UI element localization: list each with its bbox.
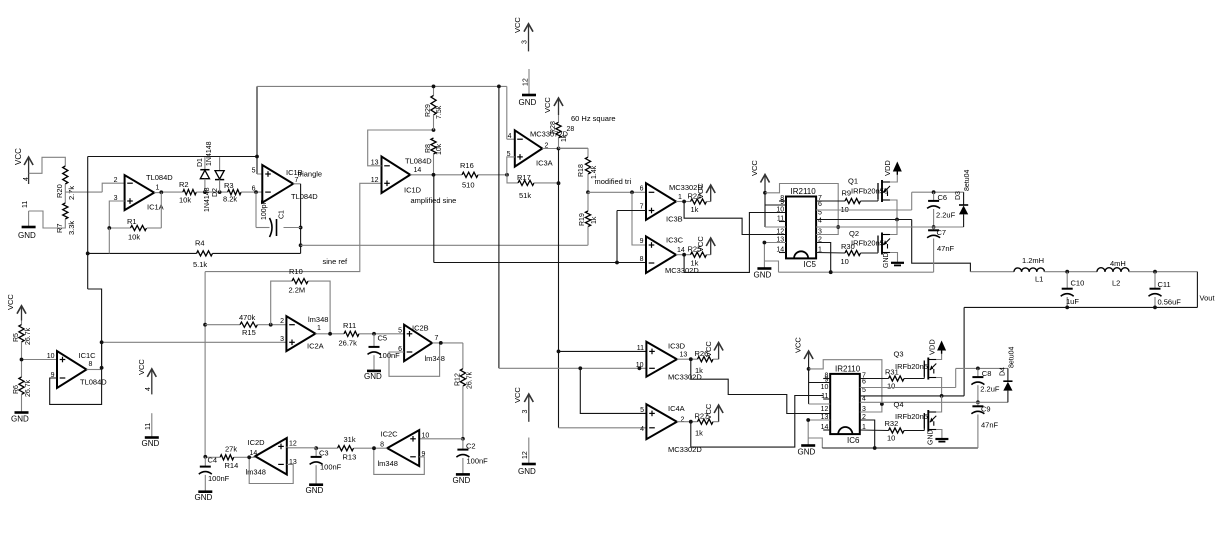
capacitor C8 2.2uF — [971, 368, 999, 402]
svg-text:2.7k: 2.7k — [67, 186, 76, 200]
IC6 pin11 stub — [823, 398, 830, 400]
capacitor C1 100pF — [261, 200, 286, 237]
svg-text:R8: R8 — [425, 144, 432, 153]
svg-text:VCC: VCC — [794, 337, 803, 353]
power flag VCC divider — [6, 294, 26, 321]
svg-text:IRFb20n5: IRFb20n5 — [895, 412, 928, 421]
svg-text:510: 510 — [462, 181, 475, 190]
capacitor C3 100nF — [310, 448, 342, 484]
svg-text:IRFb20n5: IRFb20n5 — [851, 239, 884, 248]
wire square to IC3D — [559, 350, 647, 352]
svg-text:2: 2 — [280, 318, 284, 325]
wire IC2D out — [234, 456, 256, 458]
svg-text:VCC: VCC — [543, 97, 552, 113]
resistor R16 — [460, 161, 478, 190]
node C11 top — [1153, 270, 1157, 274]
svg-text:11: 11 — [145, 423, 152, 430]
svg-text:IC3C: IC3C — [666, 236, 684, 245]
wire vgnd to IC3A — [507, 86, 515, 139]
resistor R19 1k — [579, 192, 598, 245]
svg-text:R11: R11 — [343, 321, 356, 330]
svg-text:R2: R2 — [179, 180, 189, 189]
svg-text:MC3302D: MC3302D — [668, 445, 702, 454]
svg-text:7: 7 — [640, 204, 644, 211]
wire gnd2 jog to rail — [808, 438, 822, 448]
svg-text:L2: L2 — [1112, 279, 1120, 288]
node C5 top — [372, 332, 376, 336]
svg-text:3: 3 — [280, 336, 284, 343]
op-amp IC1B — [252, 165, 323, 203]
svg-text:IR2110: IR2110 — [835, 365, 861, 374]
power flag VCC bottom (pin 3) — [513, 387, 533, 422]
wire pin2b to rail — [860, 420, 875, 448]
node rail 499 — [497, 85, 501, 89]
node D2 bottom — [218, 190, 222, 194]
wire vgnd top — [88, 156, 257, 158]
wire VB2 line — [956, 367, 1008, 369]
svg-text:1N4148: 1N4148 — [204, 187, 211, 212]
ground IC5 GND — [754, 269, 772, 280]
wire R15 to IC2A — [257, 324, 286, 326]
node phase q3 — [940, 394, 944, 398]
ground R6 GND — [11, 394, 29, 423]
wire VCC to pin3 — [765, 184, 838, 235]
resistor R14 27k — [220, 445, 238, 471]
wire IC4A to LIN2 — [691, 396, 823, 448]
node IC3B out — [682, 200, 686, 204]
wire Q2 drain — [890, 220, 897, 235]
svg-text:GND: GND — [519, 98, 537, 107]
resistor R1 — [127, 217, 147, 242]
svg-text:12: 12 — [821, 406, 829, 413]
node div2 — [20, 358, 24, 362]
diode D1 1N4148 — [197, 141, 213, 192]
node R17 out — [557, 181, 561, 185]
svg-text:R29: R29 — [425, 104, 432, 117]
svg-text:IC5: IC5 — [804, 260, 817, 269]
wire IC1A output — [154, 191, 183, 194]
ground C4 — [195, 492, 213, 502]
svg-text:8etu04: 8etu04 — [964, 169, 971, 191]
capacitor C7 47nF — [927, 227, 954, 272]
svg-text:R17: R17 — [517, 173, 531, 182]
svg-text:VCC: VCC — [704, 341, 713, 357]
svg-text:60 Hz square: 60 Hz square — [571, 114, 616, 123]
resistor R9 — [841, 189, 861, 215]
svg-text:12: 12 — [523, 78, 530, 86]
wire phase row — [970, 271, 1014, 273]
wire IC3B out to LIN — [684, 202, 786, 235]
wire IC2B feedback — [389, 343, 440, 376]
wire pin11 gray — [765, 226, 786, 228]
wire pin6b VB2 — [860, 368, 956, 387]
svg-text:VCC: VCC — [696, 183, 705, 199]
wire square long vertical — [558, 149, 560, 428]
node IC2A out — [328, 332, 332, 336]
power flag VCC top (pin 3) — [513, 17, 533, 52]
svg-text:C11: C11 — [1158, 280, 1171, 289]
node sine R15 — [203, 323, 207, 327]
capacitor C10 1uF — [1061, 272, 1085, 308]
svg-text:VCC: VCC — [513, 387, 522, 403]
svg-text:10: 10 — [887, 434, 895, 443]
svg-text:R18: R18 — [578, 164, 585, 177]
svg-text:C8: C8 — [982, 369, 992, 378]
wire IC1D out — [410, 174, 462, 176]
wire R4 to IC1B out — [213, 252, 301, 254]
svg-text:R1: R1 — [127, 217, 137, 226]
svg-text:10: 10 — [841, 257, 849, 266]
svg-text:D2: D2 — [212, 188, 219, 197]
resistor R11 — [339, 321, 360, 348]
node diode rail — [255, 155, 259, 159]
node R8 top — [432, 128, 436, 132]
svg-text:6: 6 — [252, 186, 256, 193]
node C8 bottom — [976, 400, 980, 404]
node C3 top — [314, 446, 318, 450]
wire VCC to pin9 — [765, 193, 786, 227]
wire R10 loop — [271, 281, 330, 334]
wire Q4 drain — [936, 396, 941, 412]
node IC1D out — [432, 173, 436, 177]
wire ground rail lower — [822, 447, 978, 449]
svg-text:1: 1 — [156, 185, 160, 192]
resistor R7 — [55, 203, 76, 235]
svg-text:VDD: VDD — [883, 160, 892, 176]
node tri out — [299, 243, 303, 247]
wire L2 to C11 — [1129, 271, 1197, 273]
wire IC1D feedback — [368, 130, 434, 166]
svg-text:GND: GND — [306, 486, 324, 495]
svg-text:26.7k: 26.7k — [25, 379, 32, 397]
resistor R27 pullup — [695, 403, 724, 437]
node R15 out — [269, 323, 273, 327]
node C10 top — [1065, 270, 1069, 274]
svg-text:Q4: Q4 — [894, 400, 904, 409]
capacitor C2 100nF — [456, 439, 488, 474]
wire IC3A out — [542, 148, 588, 150]
wire feedback R1 — [109, 192, 161, 228]
wire vgnd vertical — [88, 157, 102, 368]
svg-text:1k: 1k — [695, 366, 703, 375]
svg-text:8: 8 — [640, 256, 644, 263]
svg-text:0.56uF: 0.56uF — [1158, 298, 1182, 307]
wire pin7 to R9 — [816, 200, 845, 202]
transistor Q3 IRFb20n50 — [894, 350, 937, 380]
svg-text:9: 9 — [640, 238, 644, 245]
node D1 bottom — [203, 190, 207, 194]
resistor R2 — [179, 180, 196, 205]
wire Q2 source gnd — [890, 253, 898, 263]
node amp sine branch — [615, 261, 619, 265]
node C2 top — [461, 437, 465, 441]
wire pin7b to R31 — [860, 378, 889, 380]
wire vgnd up to rail — [257, 86, 262, 174]
svg-text:GND: GND — [798, 448, 816, 457]
svg-text:4: 4 — [640, 426, 644, 433]
svg-text:1k: 1k — [591, 216, 598, 224]
svg-text:12: 12 — [289, 441, 297, 448]
IC5 right pin numbers — [818, 195, 822, 254]
svg-text:VCC: VCC — [14, 148, 23, 165]
ground bottom (pin 12) — [518, 438, 536, 477]
wire C3 to IC2D — [287, 447, 316, 449]
svg-text:7: 7 — [435, 335, 439, 342]
op-amp IC4A — [640, 404, 702, 454]
wire IC2D feedback — [249, 457, 293, 483]
wire IC2C plus — [419, 438, 463, 440]
svg-text:11: 11 — [22, 201, 29, 208]
power flag VCC IC6 — [794, 337, 814, 369]
svg-text:8: 8 — [380, 442, 384, 449]
wire divider mid — [65, 183, 124, 203]
svg-text:IR2110: IR2110 — [791, 187, 817, 196]
ground mid (pin 11) — [142, 413, 160, 448]
svg-text:C9: C9 — [981, 405, 991, 414]
node pin13 — [763, 241, 767, 245]
svg-text:5.1k: 5.1k — [193, 260, 207, 269]
svg-text:11: 11 — [637, 345, 644, 352]
svg-text:Q2: Q2 — [849, 229, 859, 238]
wire IC3D to HIN2 — [691, 359, 830, 413]
node square branch — [557, 350, 561, 354]
svg-text:14: 14 — [250, 450, 258, 457]
svg-text:lm348: lm348 — [246, 468, 266, 477]
wire R14 to C4 — [205, 456, 220, 458]
wire IC3A plus — [507, 157, 515, 175]
op-amp IC2A — [280, 315, 328, 351]
wire Q1 drain VDD — [890, 175, 897, 182]
svg-text:IC6: IC6 — [847, 436, 860, 445]
diode D2 1N4148 — [204, 157, 224, 212]
svg-text:4mH: 4mH — [1110, 259, 1126, 268]
svg-text:R19: R19 — [579, 213, 586, 226]
svg-text:IC3D: IC3D — [668, 342, 686, 351]
capacitor C5 100nF — [368, 334, 401, 370]
node IC2C out — [372, 446, 376, 450]
node R29 top — [432, 85, 436, 89]
IC5 pin14 stub — [779, 252, 786, 254]
wire C1 loop — [256, 192, 301, 227]
op-amp IC2B — [398, 324, 445, 364]
wire Q3 source — [936, 378, 941, 396]
svg-text:C4: C4 — [208, 456, 218, 465]
svg-text:GND: GND — [883, 252, 890, 268]
svg-text:Q1: Q1 — [848, 177, 858, 186]
IC6 pin14 stub — [823, 429, 830, 431]
node vcc ic6 — [807, 367, 811, 371]
wire top rail — [257, 85, 507, 87]
svg-text:1k: 1k — [695, 428, 703, 437]
resistor R4 — [193, 239, 213, 270]
resistor R5 — [13, 321, 32, 346]
wire vgnd to IC2A plus — [102, 342, 287, 368]
resistor R18 1.4k — [559, 148, 599, 192]
svg-text:IRFb20n5: IRFb20n5 — [895, 362, 928, 371]
wire IC2C feedback — [374, 448, 425, 474]
svg-text:VCC: VCC — [704, 403, 713, 419]
svg-text:10k: 10k — [179, 196, 191, 205]
power flag VCC (pin 4) — [14, 148, 33, 184]
wire 227 line — [816, 226, 964, 228]
svg-text:VCC: VCC — [6, 294, 15, 310]
svg-text:GND: GND — [18, 231, 36, 240]
svg-text:IC2D: IC2D — [248, 438, 266, 447]
svg-text:31k: 31k — [344, 435, 356, 444]
svg-text:1: 1 — [317, 325, 321, 332]
wire VCC2 to pin3 — [809, 360, 882, 412]
svg-text:modified tri: modified tri — [595, 177, 632, 186]
svg-text:sine ref: sine ref — [323, 257, 349, 266]
node sq out — [557, 147, 561, 151]
svg-text:10k: 10k — [128, 233, 140, 242]
resistor R24 pullup — [688, 183, 716, 214]
IC5 left pin numbers — [776, 195, 784, 254]
wire R17 feedback — [507, 175, 518, 183]
node C6 top — [932, 190, 936, 194]
svg-text:TL084D: TL084D — [80, 378, 107, 387]
svg-text:2.2uF: 2.2uF — [980, 385, 1000, 394]
resistor R25 pullup — [688, 236, 716, 268]
wire amplified sine down — [434, 175, 646, 263]
svg-text:1N4148: 1N4148 — [206, 141, 213, 166]
svg-text:GND: GND — [11, 415, 29, 424]
svg-text:27k: 27k — [225, 445, 237, 454]
node IC1C out — [100, 366, 104, 370]
wire vcc to R20 — [29, 157, 66, 173]
power flag VDD2 — [928, 339, 947, 355]
node vcc-227 — [836, 225, 840, 229]
wire Q1 source — [890, 200, 897, 220]
svg-text:4: 4 — [145, 387, 152, 391]
wire R32 to Q4 gate — [904, 429, 924, 431]
inductor L1 1.2mH — [1014, 256, 1044, 284]
svg-text:10: 10 — [422, 433, 430, 440]
svg-text:C7: C7 — [937, 228, 947, 237]
wire pin1b to R32 — [860, 429, 889, 432]
wire Q3 drain VDD — [936, 354, 941, 360]
svg-text:28: 28 — [567, 126, 575, 133]
resistor R13 31k — [338, 435, 357, 462]
svg-text:1.2mH: 1.2mH — [1022, 256, 1044, 265]
node C11 bottom — [1153, 306, 1157, 310]
wire output bottom rail — [964, 306, 1197, 308]
svg-text:C2: C2 — [466, 442, 476, 451]
node C4 top — [203, 455, 207, 459]
transistor Q4 IRFb20n50 — [894, 400, 937, 432]
wire gnd jog to rail — [764, 261, 778, 272]
diode D4 8etu04 — [1000, 346, 1016, 402]
svg-text:100pF: 100pF — [261, 200, 268, 220]
svg-text:IC4A: IC4A — [668, 404, 685, 413]
wire R11 to IC2B — [359, 333, 404, 335]
node R4 junction — [86, 228, 110, 255]
svg-text:VCC: VCC — [696, 236, 705, 252]
svg-text:4: 4 — [862, 396, 866, 403]
wire IC1C feedback — [50, 368, 102, 405]
ground C5 — [364, 371, 382, 381]
svg-text:L1: L1 — [1035, 275, 1043, 284]
op-amp IC1A — [114, 173, 174, 212]
svg-text:1k: 1k — [691, 205, 699, 214]
svg-text:1uF: 1uF — [1066, 297, 1079, 306]
svg-text:3: 3 — [522, 410, 529, 414]
diode D3 8etu04 — [955, 169, 971, 227]
svg-text:D4: D4 — [1000, 367, 1007, 376]
svg-text:6: 6 — [818, 201, 822, 208]
wire phase to L1 — [912, 220, 971, 272]
node mt branch — [630, 190, 634, 194]
capacitor C9 47nF — [971, 402, 998, 448]
svg-text:3: 3 — [522, 40, 529, 44]
svg-text:10: 10 — [821, 384, 829, 391]
svg-text:10: 10 — [636, 362, 644, 369]
svg-text:10k: 10k — [436, 143, 443, 155]
node IC1A out — [159, 190, 163, 194]
node IC3D out — [689, 357, 693, 361]
IC5 pin8 stub — [779, 200, 786, 202]
transistor Q2 IRFb20n50 — [849, 229, 890, 255]
svg-text:26.7k: 26.7k — [25, 327, 32, 345]
wire R7 to gnd — [29, 211, 66, 228]
resistor R10 2.2M — [289, 267, 308, 295]
capacitor C11 0.56uF — [1149, 272, 1182, 308]
wire pin5b phase — [860, 395, 964, 397]
wire vout right edge — [1196, 272, 1198, 308]
wire IC3C out — [676, 254, 691, 256]
node pin13b — [806, 418, 810, 422]
wire IC3B out — [676, 201, 691, 203]
svg-text:GND: GND — [928, 429, 935, 445]
svg-text:470k: 470k — [239, 313, 256, 322]
wire mt to IC3C — [632, 192, 646, 245]
op-amp IC3A — [507, 130, 569, 168]
svg-text:10: 10 — [47, 353, 55, 360]
svg-text:triangle: triangle — [298, 170, 323, 179]
svg-text:4: 4 — [508, 133, 512, 140]
wire sine ref — [205, 183, 381, 271]
wire vgnd corridor — [499, 367, 646, 369]
wire R17 to out — [534, 182, 559, 184]
svg-text:IC3B: IC3B — [666, 215, 683, 224]
svg-text:GND: GND — [518, 467, 536, 476]
node rail2 pin2 — [873, 446, 877, 450]
op-amp IC3D — [636, 342, 703, 382]
wire square vert — [498, 86, 500, 368]
svg-text:2: 2 — [681, 417, 685, 424]
svg-text:10: 10 — [776, 207, 784, 214]
svg-text:IC3A: IC3A — [536, 159, 553, 168]
svg-text:100nF: 100nF — [208, 474, 230, 483]
node R1 left — [107, 226, 111, 230]
wire vgnd to IC4A plus — [580, 368, 646, 413]
node C6 bottom — [932, 225, 936, 229]
svg-text:D3: D3 — [955, 191, 962, 200]
IC6 left pin numbers — [821, 373, 829, 432]
wire pin2 to rail — [816, 243, 831, 273]
wire amplified sine to IC3B — [617, 211, 646, 263]
node vgnd ic2a — [100, 340, 104, 344]
svg-text:5: 5 — [640, 407, 644, 414]
wire pin1 to R30 — [816, 252, 845, 255]
op-amp IC1C — [47, 351, 108, 388]
resistor R26 pullup — [695, 341, 724, 375]
resistor R20 — [55, 166, 76, 200]
svg-text:8.2k: 8.2k — [223, 195, 237, 204]
svg-text:R4: R4 — [195, 239, 205, 248]
svg-text:IC1D: IC1D — [404, 186, 422, 195]
wire Q4 source gnd — [936, 430, 942, 439]
